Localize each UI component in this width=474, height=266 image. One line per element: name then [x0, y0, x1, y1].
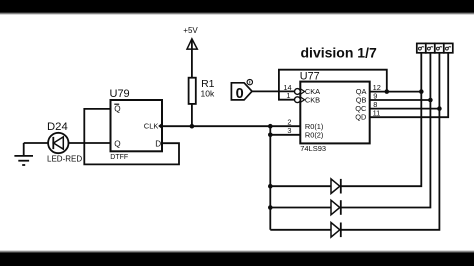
- junction diode 2 anode: [268, 205, 273, 210]
- flip-flop U79 (DTFF): [110, 88, 163, 161]
- wire QA to connector V1: [370, 91, 421, 93]
- svg-text:74LS93: 74LS93: [300, 144, 326, 153]
- wire V3 connector to diode 3 cathode: [342, 53, 440, 230]
- wire R1 to CLK net: [191, 104, 193, 126]
- logic probe 0: [231, 79, 252, 102]
- svg-text:CLK: CLK: [144, 122, 159, 131]
- wire QA feedback to CKB: [279, 70, 387, 100]
- wire probe to CKA: [252, 90, 295, 92]
- svg-text:+5V: +5V: [183, 26, 198, 35]
- junction R1/CLK: [190, 124, 195, 129]
- svg-text:D: D: [155, 139, 161, 148]
- wire diode 2 anode: [270, 207, 331, 209]
- wire diode 3 anode: [270, 229, 331, 231]
- pin CKA bubble: [295, 89, 301, 95]
- wire R0(2) stub: [270, 134, 300, 136]
- svg-text:Q: Q: [114, 104, 120, 113]
- svg-text:division 1/7: division 1/7: [301, 44, 377, 60]
- svg-text:U77: U77: [300, 71, 320, 83]
- wire CKB stub junction on CLK net: [269, 126, 271, 230]
- pin CKB bubble: [295, 97, 301, 103]
- svg-text:CKB: CKB: [305, 95, 320, 104]
- diode D3: [331, 223, 341, 238]
- svg-text:11: 11: [373, 108, 381, 117]
- connector J1: [417, 43, 453, 52]
- wire V1 connector to diode 1 cathode: [342, 53, 422, 186]
- wire U79 D to Qbar feedback loop: [84, 109, 179, 164]
- junction diode 1 anode: [268, 184, 273, 189]
- diode D1: [331, 179, 341, 194]
- svg-text:U79: U79: [110, 88, 130, 100]
- svg-text:1: 1: [286, 91, 290, 100]
- junction QA loop: [385, 89, 390, 94]
- svg-text:R0(2): R0(2): [305, 130, 323, 139]
- svg-text:3: 3: [287, 126, 291, 135]
- svg-text:QD: QD: [355, 113, 366, 122]
- LED D24: [48, 133, 68, 153]
- diode D2: [331, 200, 341, 215]
- wire QC to V3: [370, 108, 440, 110]
- svg-text:Q: Q: [114, 139, 120, 148]
- junction R0(2): [268, 133, 273, 138]
- wire U79 CLK net to R0 pins: [162, 125, 300, 127]
- resistor R1: [189, 78, 196, 104]
- wire diode 1 anode: [270, 185, 331, 187]
- junction QA V1: [419, 89, 424, 94]
- wire ground to LED: [24, 142, 48, 144]
- svg-text:DTFF: DTFF: [110, 154, 128, 161]
- junction QC V3: [437, 106, 442, 111]
- wire V2 connector to diode 2 cathode: [342, 53, 431, 208]
- wire QD to V4: [370, 53, 448, 117]
- svg-text:LED-RED: LED-RED: [47, 154, 82, 163]
- junction QB V2: [428, 98, 433, 103]
- svg-text:D24: D24: [47, 121, 68, 133]
- wire +5V to R1: [191, 41, 193, 78]
- wire QB to V2: [370, 99, 431, 101]
- ground: [14, 143, 33, 165]
- svg-text:0: 0: [236, 86, 244, 102]
- wire LED to U79 Q pin: [69, 142, 111, 144]
- junction CLK/R0 vertical: [268, 124, 273, 129]
- svg-text:10k: 10k: [201, 89, 215, 99]
- IC U77 74LS93: [283, 71, 380, 153]
